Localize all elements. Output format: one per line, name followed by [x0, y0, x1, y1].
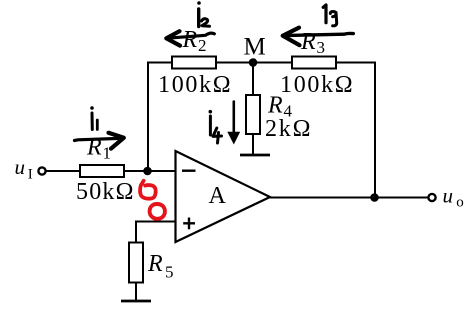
svg-text:3: 3 [317, 38, 326, 57]
svg-text:o: o [456, 195, 464, 211]
svg-text:100kΩ: 100kΩ [158, 72, 232, 98]
svg-text:R: R [300, 29, 316, 55]
svg-text:u: u [15, 155, 26, 179]
svg-text:2: 2 [198, 36, 207, 55]
svg-text:R: R [267, 93, 283, 119]
svg-text:100kΩ: 100kΩ [280, 72, 354, 98]
svg-text:M: M [244, 34, 266, 61]
svg-text:A: A [209, 183, 227, 209]
svg-text:R: R [182, 27, 198, 53]
svg-text:50kΩ: 50kΩ [76, 179, 135, 205]
svg-text:1: 1 [103, 144, 112, 163]
svg-text:u: u [443, 184, 454, 208]
svg-text:R: R [147, 251, 163, 277]
svg-text:4: 4 [284, 102, 293, 121]
svg-text:I: I [28, 167, 33, 183]
svg-text:5: 5 [165, 263, 174, 282]
